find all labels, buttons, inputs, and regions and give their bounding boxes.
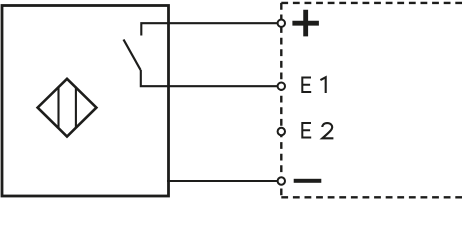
terminal -: [278, 177, 285, 184]
dashed connector box top edge: [281, 2, 462, 4]
label -: [294, 179, 322, 183]
label +: [292, 10, 319, 37]
wire - (bottom): [167, 180, 278, 182]
wire + (top) with switch upper contact tick: [141, 23, 277, 35]
diamond inner bar right: [75, 87, 77, 129]
sensor body box: [2, 6, 169, 197]
label E 1 : letter E: [302, 78, 311, 93]
proximity sensor symbol (diamond): [38, 79, 97, 137]
switch blade: [124, 40, 141, 71]
terminal +: [278, 20, 285, 27]
diamond inner bar left: [57, 87, 59, 129]
terminal E1: [278, 83, 285, 90]
label E 2 : letter E: [302, 123, 311, 138]
label E 1 : digit 1: [320, 77, 325, 93]
dashed connector box bottom edge: [281, 196, 462, 198]
wire E1 with switch lower contact: [141, 70, 278, 86]
terminal E2: [278, 128, 285, 135]
label E 2 : digit 2: [322, 123, 333, 138]
dashed connector box left edge: [280, 3, 282, 197]
